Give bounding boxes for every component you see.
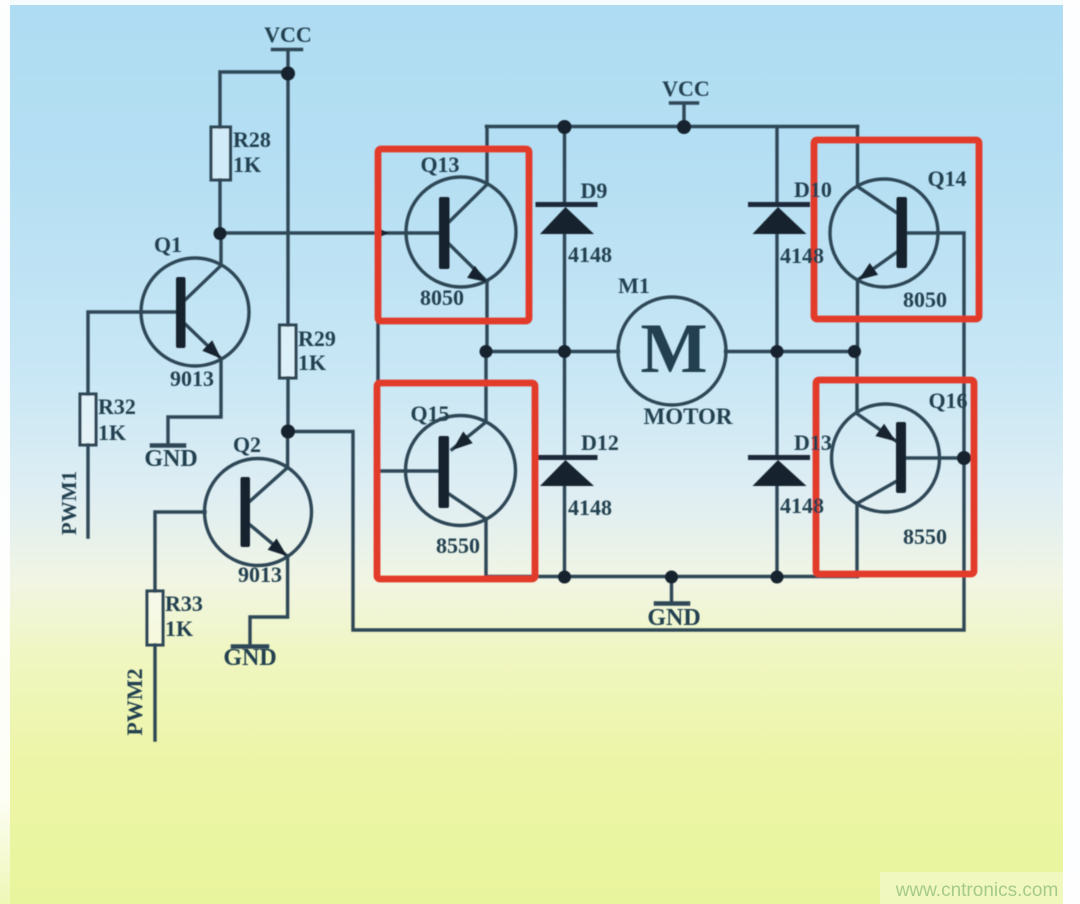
motor M1 circle [618, 297, 726, 405]
diode D9 line [563, 127, 566, 204]
wire Q2 collector up to node [286, 432, 289, 467]
transistor Q13 base bar [439, 197, 450, 269]
svg-text:Q13: Q13 [420, 152, 459, 177]
svg-text:4148: 4148 [568, 495, 612, 520]
svg-text:GND: GND [647, 605, 700, 631]
junction dot mid bus D10/D13 [771, 345, 784, 358]
wire node to Q13 base [220, 231, 440, 234]
wire Q2 emitter to GND [250, 556, 288, 645]
ground bar mid [656, 601, 688, 606]
diode D12 line [563, 352, 566, 458]
svg-text:1K: 1K [98, 420, 126, 445]
svg-text:D12: D12 [581, 430, 619, 455]
resistor R32 1K [80, 394, 96, 445]
svg-text:1K: 1K [298, 350, 326, 375]
resistor R28 1K [211, 127, 231, 180]
diode D12 cathode bar [538, 455, 595, 460]
junction dot mid bus Q14/Q16 [848, 345, 861, 358]
svg-text:www.cntronics.com: www.cntronics.com [895, 880, 1059, 901]
svg-text:M: M [640, 310, 707, 388]
wire Q1 emitter to GND [168, 359, 221, 444]
transistor Q16 8550 [832, 404, 940, 512]
svg-text:PWM2: PWM2 [122, 668, 147, 735]
arrow into Q13 base [375, 227, 389, 239]
wire Q13 emitter to mid bus [485, 281, 488, 352]
transistor Q2 base bar [241, 477, 251, 547]
wire Q16 collector to gnd bus [855, 503, 858, 577]
svg-text:4148: 4148 [780, 243, 824, 268]
svg-text:Q16: Q16 [928, 388, 967, 413]
svg-text:R28: R28 [233, 127, 271, 152]
svg-text:R33: R33 [165, 591, 203, 616]
transistor Q14 emitter arrow [859, 263, 879, 280]
svg-text:Q15: Q15 [410, 401, 449, 426]
svg-text:VCC: VCC [662, 76, 710, 101]
svg-text:8550: 8550 [436, 533, 480, 558]
svg-text:D13: D13 [794, 430, 832, 455]
svg-text:GND: GND [144, 446, 197, 472]
transistor Q13 emitter arrow [467, 266, 487, 282]
svg-text:GND: GND [223, 645, 276, 671]
svg-text:R32: R32 [98, 394, 136, 419]
wire node down to Q15 base [378, 233, 440, 471]
svg-text:Q1: Q1 [154, 232, 182, 257]
junction dot mid bus Q13/Q15 [480, 345, 493, 358]
junction dot VCC left [281, 67, 295, 81]
highlight box Q13 [378, 149, 529, 321]
svg-text:Q2: Q2 [233, 432, 261, 457]
wire Q14 emitter to mid bus [856, 280, 859, 352]
transistor Q15 emitter arrow [453, 432, 473, 451]
svg-text:8050: 8050 [420, 285, 464, 310]
wire Q16 emitter to mid bus [855, 352, 858, 414]
transistor Q14 base bar [897, 197, 908, 268]
wire Q13 collector to top bus [485, 127, 488, 185]
diode D10 triangle [753, 207, 807, 234]
svg-text:D9: D9 [581, 178, 608, 203]
power VCC (left) [273, 50, 302, 75]
diode D9 cathode bar [538, 202, 595, 207]
power VCC (right) [671, 103, 698, 127]
wire Q14 collector to top bus [856, 127, 859, 187]
transistor Q15 8550 [406, 416, 516, 526]
wire Q2 collector node to bottom bus [288, 233, 964, 630]
watermark panel [880, 872, 1080, 904]
wire R29 bottom to Q2 collector node [286, 378, 289, 432]
svg-text:M1: M1 [618, 273, 650, 298]
svg-text:9013: 9013 [170, 366, 214, 391]
junction dot gnd bus D13 [771, 571, 784, 584]
svg-text:R29: R29 [298, 326, 336, 351]
ground bar under Q1 [152, 443, 184, 448]
junction dot R28/Q1 node [214, 227, 227, 240]
svg-text:D10: D10 [794, 177, 832, 202]
junction dot top bus D9 [558, 120, 572, 134]
svg-text:4148: 4148 [780, 493, 824, 518]
resistor R33 1K [147, 591, 163, 645]
wire Q16 base from right rail [906, 456, 964, 459]
junction dot top bus VCC [677, 120, 691, 134]
diode D13 line [775, 352, 778, 458]
svg-text:Q14: Q14 [927, 166, 966, 191]
highlight box Q15 [377, 383, 535, 579]
junction dot gnd bus stub [665, 571, 678, 584]
diode D13 cathode bar [751, 455, 808, 460]
mid bus left [486, 350, 619, 353]
mid bus right [726, 350, 858, 353]
svg-text:MOTOR: MOTOR [643, 404, 732, 429]
transistor Q1 emitter arrow [202, 340, 221, 358]
gnd bus [486, 575, 858, 578]
diode D12 triangle [540, 460, 594, 486]
wire Q15 collector to gnd bus [484, 519, 487, 577]
svg-text:1K: 1K [233, 152, 261, 177]
junction dot Q2 collector node [281, 425, 295, 439]
white page edge right [1063, 0, 1080, 904]
transistor Q2 9013 [205, 459, 312, 566]
wire VCC rail down to R29 [286, 74, 289, 325]
svg-text:PWM1: PWM1 [57, 471, 81, 535]
svg-text:9013: 9013 [238, 562, 282, 587]
diode D9 triangle [540, 207, 594, 234]
wire Q1 collector to node [219, 234, 222, 265]
resistor R29 1K [280, 325, 297, 378]
diode D13 triangle [753, 460, 807, 486]
highlight box Q16 [816, 380, 974, 574]
svg-text:4148: 4148 [568, 242, 612, 267]
diode D10 line [775, 127, 778, 204]
wire R28 bottom to node [218, 180, 221, 234]
white page edge top [0, 0, 1080, 5]
wire Q2 base to R33 [155, 512, 205, 591]
ground bar under Q2 [233, 644, 267, 649]
transistor Q1 9013 [141, 258, 249, 366]
svg-text:8550: 8550 [903, 524, 947, 549]
transistor Q13 8050 [406, 177, 516, 287]
transistor Q2 emitter arrow [268, 539, 287, 557]
transistor Q16 emitter arrow [875, 424, 896, 442]
wire R33 to PWM2 [153, 645, 156, 740]
wire VCC dot to R28 top [220, 72, 288, 127]
transistor Q16 base bar [896, 422, 906, 493]
junction dot mid bus D9/D12 [558, 345, 571, 358]
top VCC bus [487, 125, 858, 128]
svg-text:VCC: VCC [264, 22, 312, 47]
gnd stub mid [670, 577, 673, 602]
svg-text:1K: 1K [165, 616, 193, 641]
wire Q1 base to R32 [88, 312, 176, 394]
wire R32 to PWM1 [86, 445, 89, 537]
junction dot gnd bus D12 [558, 571, 571, 584]
white page edge left [0, 0, 10, 904]
transistor Q15 base bar [439, 436, 450, 508]
highlight box Q14 [814, 140, 979, 319]
transistor Q1 base bar [176, 277, 186, 348]
svg-text:8050: 8050 [903, 287, 947, 312]
diode D10 cathode bar [751, 202, 808, 207]
transistor Q14 8050 [830, 179, 938, 287]
junction dot Q16 base [957, 451, 971, 465]
wire Q15 emitter to mid bus [484, 352, 487, 423]
